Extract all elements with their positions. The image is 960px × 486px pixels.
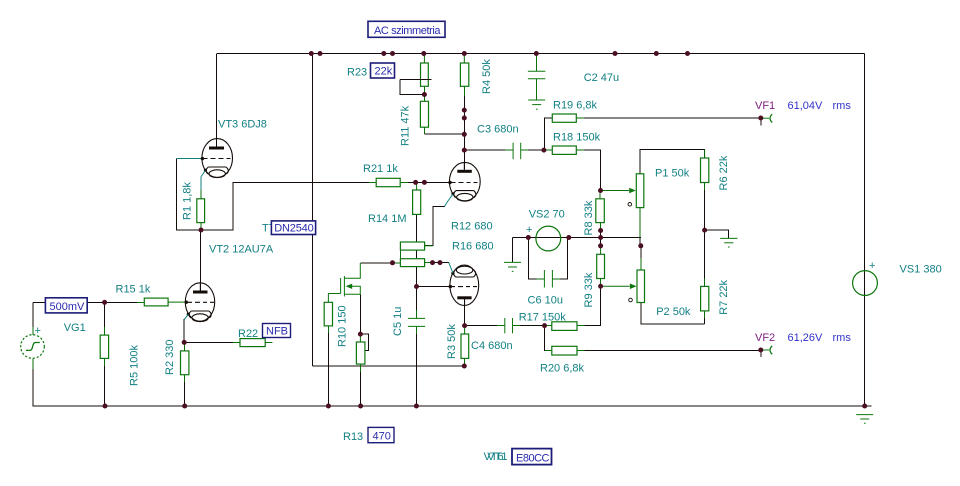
wire VG1 bottom [32, 358, 34, 369]
junction at (543.9,150.1) [541, 148, 546, 153]
junction at (600.6,245.8) [598, 243, 603, 248]
svg-text:C6 10u: C6 10u [528, 295, 563, 307]
wire C6 right loop [552, 278, 560, 280]
svg-text:R16 680: R16 680 [452, 241, 494, 253]
svg-text:61,04V: 61,04V [788, 100, 824, 112]
resistor R8 [596, 191, 605, 223]
junction at (464.3,53.5) [462, 51, 467, 56]
svg-text:+: + [869, 260, 875, 272]
svg-text:VS2 70: VS2 70 [529, 209, 565, 221]
capacitor C6 [544, 270, 552, 288]
wire R18 left lead [544, 149, 552, 151]
resistor R11 [420, 101, 428, 127]
junction at (464.3,366) [462, 364, 467, 369]
junction at (704.6,230.1) [702, 228, 707, 233]
source VS2 [526, 224, 561, 251]
mosfet T7 DN2540 [328, 263, 360, 302]
junction at (184.7,406) [182, 404, 187, 409]
junction at (416.4,406) [414, 404, 419, 409]
wire R12 R16 left bracket [399, 246, 401, 263]
wire right rail down to ground (VS1 branch) [864, 54, 866, 407]
potentiometer P2 [601, 270, 645, 303]
tube VT3 [177, 54, 233, 178]
wire R5 bottom [103, 358, 105, 366]
ground below C2 [528, 100, 545, 109]
junction at (415.6,182.4) [413, 180, 418, 185]
ground below VS2 rail [504, 262, 521, 271]
resistor R20 [552, 346, 577, 355]
wire R16 right to lower cathode [425, 262, 433, 264]
junction at (320,53.5) [318, 51, 323, 56]
junction at (104.6,302.4) [102, 300, 107, 305]
junction at (600.6,230.5) [598, 228, 603, 233]
resistor R15 [144, 298, 186, 306]
wire VS2 rail [513, 237, 641, 239]
junction at (416.5,286.5) [414, 284, 419, 289]
value box 470 [368, 427, 394, 442]
capacitor C2 [528, 54, 545, 101]
svg-text:R9 33k: R9 33k [583, 272, 595, 307]
svg-text:R6 22k: R6 22k [718, 155, 730, 190]
resistor R14 [413, 182, 421, 214]
junction at (615,53.5) [613, 51, 618, 56]
WIRES_LAYER [32, 54, 871, 407]
wire R19 right to VF1 [576, 117, 584, 119]
svg-text:R8 33k: R8 33k [583, 200, 595, 235]
svg-text:VS1 380: VS1 380 [900, 264, 942, 276]
wire VT3 grid bracket [177, 159, 202, 231]
svg-text:500mV: 500mV [50, 301, 86, 313]
svg-text:R23: R23 [347, 67, 367, 79]
resistor R5 [100, 335, 108, 358]
junction at (600.5,190.5) [598, 188, 603, 193]
svg-text:C4 680n: C4 680n [471, 340, 513, 352]
junction at (568.8,237.5) [566, 235, 571, 240]
wire R11 bottom across to anode branch [423, 127, 425, 134]
junction at (432.5,262.6) [430, 260, 435, 265]
svg-text:C5 1u: C5 1u [392, 307, 404, 336]
wire R4 bottom to VT1 anode [463, 86, 465, 96]
voltage pin VF1 [763, 114, 772, 122]
junction at (600.6,237.5) [598, 235, 603, 240]
ground at R6 R7 node [720, 238, 737, 247]
label 500mV box [45, 298, 87, 313]
svg-text:R18 150k: R18 150k [553, 131, 601, 143]
resistor R2 [181, 342, 189, 374]
wire B+ branch horizontal to R3 [313, 365, 465, 367]
svg-text:rms: rms [833, 332, 852, 344]
svg-text:R2 330: R2 330 [164, 340, 176, 375]
resistor R9 [597, 246, 605, 279]
junction at (424.4,94.5) [422, 92, 427, 97]
svg-text:E80CC: E80CC [516, 452, 550, 464]
label VF1 + value [755, 100, 851, 112]
svg-text:R21 1k: R21 1k [363, 163, 398, 175]
label box AC szimmetria [368, 21, 445, 37]
potentiometer P1 [601, 174, 644, 208]
wire R7 top [704, 230, 706, 278]
wire R21 to VT1 grid [400, 181, 408, 183]
wire R18 right down to R8 [576, 149, 584, 151]
svg-text:22k: 22k [375, 66, 393, 78]
wire R19 branch up [544, 118, 552, 150]
wire R10 wiper bracket [357, 334, 368, 350]
wire R23 wiper bracket [400, 80, 424, 95]
value box 22k [371, 63, 395, 78]
junction at (600.6,286.25) [598, 284, 603, 289]
wire R17 leads [545, 325, 553, 327]
resistor R23 (trimmer body) [400, 54, 432, 87]
wire R6 node to ground [705, 230, 729, 238]
capacitor C3 [513, 143, 521, 160]
junction at (360.4,334.1) [358, 332, 363, 337]
junction at (464.6,325.6) [462, 323, 467, 328]
resistor R21 [376, 178, 400, 186]
tube VT5 (lower right, inverted) [449, 263, 479, 306]
junction at (640.8,245.8) [638, 243, 643, 248]
junction at (328.4,406) [326, 404, 331, 409]
tube VT1 (upper right) [445, 162, 481, 206]
junction at (536.3,53.5) [534, 51, 539, 56]
wire R13 bottom to ground [327, 326, 329, 333]
svg-text:R22: R22 [238, 328, 258, 340]
junction at (687.5,53.5) [685, 51, 690, 56]
junction at (464.3,134.3) [462, 132, 467, 137]
wire VT2 anode up to node [200, 230, 202, 291]
wire input to 500mV box [33, 301, 46, 303]
wire top B+ rail [217, 53, 865, 55]
junction at (864.7,406) [862, 404, 867, 409]
resistor R10 (trimmer body) [356, 334, 365, 364]
resistor R17 [552, 322, 577, 331]
wire C3 to R18 node [521, 149, 528, 151]
capacitor C4 [505, 318, 513, 333]
wire C6 left loop [528, 238, 536, 279]
svg-text:470: 470 [373, 430, 391, 442]
junction at (464.3,110.1) [462, 108, 467, 113]
wire C4 to R17 node [513, 325, 521, 327]
junction at (656.3,53.5) [654, 51, 659, 56]
resistor R18 [552, 146, 576, 154]
type box E80CC [512, 449, 552, 465]
wire R20 branch [544, 326, 546, 351]
value box NFB [263, 324, 291, 338]
wire C5 bottom to ground [415, 326, 417, 334]
junction at (424.4,182.4) [422, 180, 427, 185]
source VS1 [853, 260, 878, 295]
generator VG1 [21, 325, 45, 358]
voltage pin VF2 [763, 346, 772, 354]
wire VT1 cathode path [425, 206, 445, 245]
junction at (105,406) [103, 404, 108, 409]
svg-text:NFB: NFB [266, 326, 288, 338]
resistor R6 [701, 150, 709, 183]
svg-text:R15 1k: R15 1k [116, 284, 151, 296]
wire VT2 cathode down [183, 319, 185, 342]
svg-text:R20 6,8k: R20 6,8k [540, 362, 585, 374]
svg-text:P2 50k: P2 50k [656, 306, 691, 318]
junction at (440,262.6) [438, 260, 443, 265]
svg-text:R4 50k: R4 50k [481, 59, 493, 94]
svg-text:R19 6,8k: R19 6,8k [553, 100, 598, 112]
wire VT3 cathode to R1 [200, 177, 202, 191]
svg-text:R5 100k: R5 100k [129, 345, 141, 386]
svg-text:+: + [526, 224, 532, 236]
svg-text:VT2 12AU7A: VT2 12AU7A [209, 244, 274, 256]
wire P1 top to R6 [640, 150, 705, 174]
junction at (184.2,342.4) [182, 340, 187, 345]
label VT5 VT1 overlapped [484, 451, 508, 463]
junction at (423.8,53.5) [421, 51, 426, 56]
wire VS2 rail ground drop [512, 238, 514, 263]
value box DN2540 [271, 221, 315, 235]
svg-text:R10 150: R10 150 [337, 305, 349, 347]
junction at (528.3,237.5) [526, 235, 531, 240]
wire R20 to VF2 [577, 350, 585, 352]
junction at (311.3,53.5) [309, 51, 314, 56]
svg-text:AC szimmetria: AC szimmetria [374, 25, 441, 37]
junction at (392.5,53.5) [390, 51, 395, 56]
resistor R12 [400, 242, 432, 250]
wire 500mV box to R15 [87, 301, 137, 303]
resistor R7 [701, 286, 709, 311]
capacitor C5 [408, 287, 425, 327]
junction at (760.8,350) [758, 348, 763, 353]
resistor R22 [240, 339, 272, 347]
svg-text:VF1: VF1 [755, 100, 775, 112]
wire lower anode node to C4 [464, 298, 466, 326]
svg-text:R3 50k: R3 50k [446, 324, 458, 359]
tube VT2 [184, 283, 215, 322]
resistor R3 [461, 326, 469, 366]
wire R9 bottom to R17 corner [600, 278, 602, 286]
wire ground rail [32, 405, 871, 407]
wire VF1 stub [760, 118, 762, 126]
resistor R4 [460, 54, 468, 87]
junction at (760.8,118) [758, 116, 763, 121]
wire P2 bottom to R7 bottom [641, 303, 705, 325]
svg-text:R17 150k: R17 150k [519, 312, 567, 324]
junction at (464.3,150.1) [462, 148, 467, 153]
resistor R13 [324, 302, 332, 326]
svg-text:VT1: VT1 [487, 451, 507, 463]
svg-text:61,26V: 61,26V [788, 332, 824, 344]
svg-text:C2 47u: C2 47u [584, 72, 619, 84]
svg-text:R14 1M: R14 1M [368, 213, 407, 225]
junction at (464.3,118) [462, 116, 467, 121]
wire P2 top lead [640, 246, 642, 258]
resistor R1 [197, 199, 205, 223]
svg-text:VF2: VF2 [755, 332, 775, 344]
wire R6 bottom [704, 182, 706, 190]
svg-text:R11 47k: R11 47k [400, 105, 412, 146]
svg-text:R13: R13 [343, 431, 363, 443]
junction at (383.8,53.5) [381, 51, 386, 56]
wire R14 down through R12 R16 to grid node [416, 214, 418, 286]
junction at (201,230) [199, 228, 204, 233]
wire R8 bottom joints [600, 222, 602, 230]
svg-text:R1 1,8k: R1 1,8k [182, 182, 194, 220]
junction at (544.5,325.6) [542, 323, 547, 328]
svg-text:C3 680n: C3 680n [477, 124, 519, 136]
svg-text:rms: rms [833, 100, 852, 112]
wire R5 top lead joint [104, 302, 106, 327]
wire VF2 stub [760, 350, 762, 357]
svg-text:P1 50k: P1 50k [655, 167, 690, 179]
wire R23 bottom to R11 [423, 86, 425, 101]
ground bottom right VS1 [856, 415, 873, 424]
wire anode node to C3 [464, 149, 505, 151]
svg-text:+: + [35, 325, 41, 337]
resistor R19 [552, 114, 576, 122]
wire mosfet drain to R16 [360, 262, 392, 264]
wire R10 bottom to ground [360, 364, 362, 372]
svg-text:R12 680: R12 680 [451, 221, 493, 233]
svg-text:DN2540: DN2540 [274, 223, 314, 235]
wire R1 bottom to node [200, 222, 202, 230]
wire node to R21 [201, 182, 369, 230]
resistor R16 [400, 259, 424, 267]
wire B+ branch vertical x312 [312, 54, 314, 367]
wire cathode node to R22 [184, 341, 233, 343]
wire grid node to lower tube grid [417, 286, 449, 288]
svg-text:VT3 6DJ8: VT3 6DJ8 [218, 119, 267, 131]
wire P1 bottom to P2 top [639, 208, 641, 238]
wire R7 bottom [704, 311, 706, 318]
label VF2 + value [755, 332, 851, 344]
svg-text:R7 22k: R7 22k [718, 279, 730, 314]
wire VG1 top [32, 302, 34, 327]
svg-text:VG1: VG1 [64, 322, 86, 334]
wire R2 bottom [184, 375, 186, 383]
wire mosfet source down to R10 [359, 294, 361, 334]
junction at (360.6,406) [358, 404, 363, 409]
COMPONENTS_LAYER [21, 51, 878, 423]
junction at (392.5,262.8) [390, 260, 395, 265]
